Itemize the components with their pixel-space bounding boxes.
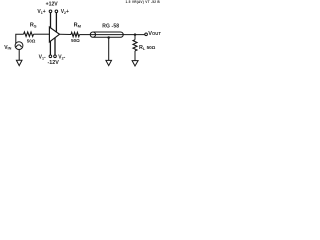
svg-text:+12V: +12V [46, 2, 59, 8]
svg-text:RS: RS [30, 22, 37, 28]
svg-text:VIN: VIN [4, 45, 11, 51]
svg-text:50Ω: 50Ω [27, 38, 36, 43]
svg-text:50Ω: 50Ω [71, 38, 80, 43]
svg-text:RG -58: RG -58 [102, 24, 119, 30]
svg-text:-12V: -12V [48, 60, 60, 66]
svg-text:1.5 VR(AV) VT -52 B: 1.5 VR(AV) VT -52 B [126, 0, 161, 4]
svg-text:RM: RM [74, 23, 82, 29]
